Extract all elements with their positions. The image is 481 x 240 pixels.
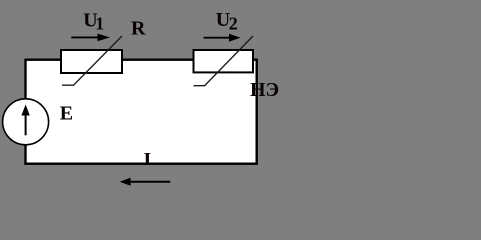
source E internal arrow <box>25 113 27 135</box>
svg-text:I: I <box>143 149 151 169</box>
resistor R1 box <box>61 50 122 73</box>
svg-text:R: R <box>131 17 146 39</box>
wire loop (circuit rectangle, white interior) <box>26 60 257 164</box>
source E circle <box>3 99 49 145</box>
arrow U1 <box>71 36 98 38</box>
resistor R1 diagonal (variability stroke) <box>62 36 122 85</box>
svg-text:1: 1 <box>95 14 104 34</box>
svg-text:НЭ: НЭ <box>250 79 279 101</box>
nonlinear element NE box <box>194 50 254 72</box>
nonlinear element NE diagonal <box>194 36 254 86</box>
svg-text:E: E <box>60 103 73 125</box>
arrow U2 <box>204 37 230 39</box>
svg-text:2: 2 <box>229 14 238 34</box>
current I arrow <box>130 181 171 183</box>
